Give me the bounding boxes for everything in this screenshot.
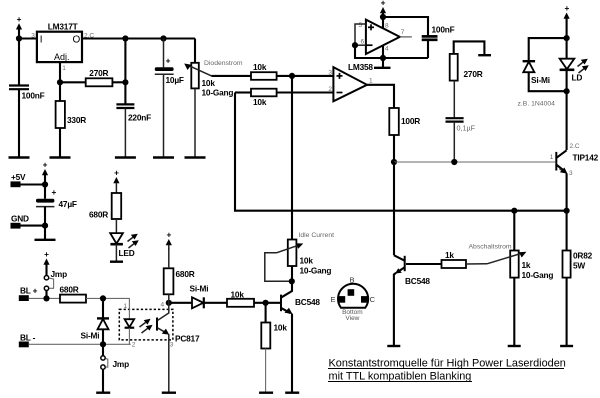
node 1k pot dot xyxy=(511,208,517,214)
power arrow Jmp1 xyxy=(43,249,49,276)
LED opto internal xyxy=(125,319,135,344)
diode Si-Mi to base xyxy=(169,284,227,309)
svg-text:3: 3 xyxy=(170,342,174,349)
svg-text:Si-Mi: Si-Mi xyxy=(81,331,100,341)
svg-text:+5V: +5V xyxy=(11,172,26,182)
resistor 10k base horizontal xyxy=(227,290,280,307)
ground 220nF xyxy=(115,156,136,158)
node BL+ jumper dot xyxy=(43,295,49,301)
node 0,1uF dot xyxy=(451,159,457,165)
ground 270R right xyxy=(478,54,491,56)
node BL- dot xyxy=(100,341,106,347)
terminal BL- xyxy=(19,333,36,348)
svg-text:10k: 10k xyxy=(202,78,216,88)
svg-text:Idle Current: Idle Current xyxy=(299,232,335,239)
laser diode LD xyxy=(560,38,583,91)
wire Adj pin xyxy=(59,62,61,82)
svg-text:+: + xyxy=(166,230,171,240)
power arrow laser supply xyxy=(564,3,570,38)
transistor Q1 BC548 xyxy=(281,281,320,392)
svg-text:10-Gang: 10-Gang xyxy=(202,88,234,98)
resistor 680R BL xyxy=(60,285,104,303)
resistor 10k base pulldown xyxy=(261,303,287,393)
resistor 270R horizontal xyxy=(60,68,125,86)
ground Q1 emitter xyxy=(285,392,299,394)
svg-text:2: 2 xyxy=(132,342,136,349)
node BL+ 680R dot xyxy=(100,295,106,301)
node input dot xyxy=(16,35,22,41)
svg-text:0,1µF: 0,1µF xyxy=(457,124,476,133)
svg-text:+: + xyxy=(381,0,386,8)
svg-text:1: 1 xyxy=(550,154,554,161)
ground 10uF xyxy=(153,156,174,158)
svg-text:GND: GND xyxy=(11,214,29,224)
optocoupler U3 PC817 xyxy=(119,302,200,349)
svg-text:+: + xyxy=(52,187,57,197)
potentiometer 10k 10-Gang Idle Current xyxy=(265,76,334,281)
svg-text:3: 3 xyxy=(31,32,35,39)
resistor 680R LED xyxy=(89,193,121,233)
wire feedback vertical xyxy=(235,93,567,211)
svg-text:8: 8 xyxy=(385,23,389,30)
diode Si-Mi BL clamp xyxy=(81,298,110,344)
wire opto pin1 xyxy=(103,298,129,319)
svg-text:Adj.: Adj. xyxy=(54,52,70,62)
svg-text:O: O xyxy=(73,35,81,46)
node noninv dot xyxy=(289,73,295,79)
resistor 100R xyxy=(389,108,420,162)
svg-text:Diodenstrom: Diodenstrom xyxy=(204,60,243,67)
light arrows LD xyxy=(578,59,589,73)
svg-text:0R82: 0R82 xyxy=(573,251,593,261)
node base dot xyxy=(263,300,269,306)
svg-text:680R: 680R xyxy=(89,210,108,220)
terminal +5V xyxy=(11,172,46,187)
power arrow 680R opto xyxy=(166,230,172,251)
svg-text:100nF: 100nF xyxy=(22,91,45,101)
ground opto pin3 xyxy=(162,392,176,394)
terminal BL+ xyxy=(19,286,38,302)
resistor 270R right xyxy=(450,41,485,80)
ground Diodenstrom pot xyxy=(185,156,206,158)
capacitor 100nF input xyxy=(9,39,45,158)
svg-text:PC817: PC817 xyxy=(175,334,200,344)
svg-text:Jmp: Jmp xyxy=(51,269,68,279)
svg-text:BL +: BL + xyxy=(20,286,38,296)
svg-text:10k: 10k xyxy=(300,256,314,266)
jumper Jmp2 xyxy=(101,344,129,392)
capacitor 220nF xyxy=(116,39,151,158)
node idle pot dot xyxy=(289,278,295,284)
transistor Q3 TIP142 xyxy=(550,143,599,211)
op-amp U2B LM358 buffer xyxy=(348,20,405,72)
wire regulator output top rail xyxy=(82,37,195,39)
svg-text:1k: 1k xyxy=(445,250,454,260)
svg-text:+: + xyxy=(114,168,119,178)
node GND dot xyxy=(42,223,48,229)
power arrow LED branch xyxy=(113,168,119,194)
svg-text:+: + xyxy=(166,56,171,66)
node 5V dot xyxy=(42,181,48,187)
ground 100nF xyxy=(9,156,30,158)
node 270R-220nF dot xyxy=(122,79,128,85)
svg-text:330R: 330R xyxy=(67,115,86,125)
wire pin4 xyxy=(382,45,384,67)
svg-text:Abschaltstrom: Abschaltstrom xyxy=(469,244,512,251)
svg-text:Konstantstromquelle für High P: Konstantstromquelle für High Power Laser… xyxy=(329,357,566,369)
svg-text:1: 1 xyxy=(62,65,66,72)
node laser top dot xyxy=(564,35,570,41)
power arrow +V input left xyxy=(16,14,22,39)
regulator U1 LM317T xyxy=(31,22,94,73)
svg-text:View: View xyxy=(345,315,359,322)
svg-text:LED: LED xyxy=(119,248,135,258)
ground 1k pot xyxy=(508,345,521,347)
svg-text:E: E xyxy=(330,295,335,304)
potentiometer 1k 10-Gang Abschaltstrom xyxy=(469,211,554,346)
power arrow pin8 xyxy=(380,0,386,28)
svg-text:270R: 270R xyxy=(89,68,108,78)
svg-text:100R: 100R xyxy=(401,116,420,126)
svg-text:10-Gang: 10-Gang xyxy=(522,270,554,280)
node pin4 opto dot xyxy=(166,300,172,306)
ground 330R xyxy=(50,156,71,158)
svg-text:7: 7 xyxy=(401,29,405,36)
ground Q2 emitter xyxy=(387,345,400,347)
svg-text:4: 4 xyxy=(385,46,389,53)
wire pin5 bracket xyxy=(355,24,366,45)
svg-text:4: 4 xyxy=(161,302,165,309)
svg-text:z.B. 1N4004: z.B. 1N4004 xyxy=(518,101,556,108)
svg-text:2: 2 xyxy=(328,86,332,93)
svg-text:+: + xyxy=(43,160,48,170)
resistor 10k upper input xyxy=(251,62,333,80)
svg-text:47µF: 47µF xyxy=(59,199,77,209)
wire base line to TIP142 xyxy=(394,161,555,163)
wire laser to TIP142 xyxy=(566,91,568,150)
terminal GND xyxy=(11,214,46,229)
capacitor 0,1uF xyxy=(446,81,476,162)
svg-text:270R: 270R xyxy=(464,69,483,79)
capacitor 10uF electrolytic xyxy=(155,39,184,158)
wire pin6 xyxy=(355,44,366,46)
transistor Q2 BC548 blanking xyxy=(394,255,431,345)
node laser bottom dot xyxy=(564,88,570,94)
svg-text:10k: 10k xyxy=(274,323,288,333)
svg-text:Si-Mi: Si-Mi xyxy=(531,75,550,85)
node 100R base line dot xyxy=(391,159,397,165)
svg-text:LD: LD xyxy=(572,73,583,83)
light arrows opto xyxy=(140,319,153,333)
svg-text:680R: 680R xyxy=(176,269,195,279)
capacitor 47uF electrolytic xyxy=(36,185,77,226)
svg-text:220nF: 220nF xyxy=(128,113,151,123)
light arrows LED xyxy=(128,234,139,248)
node rail-10uF dot xyxy=(160,35,166,41)
ground Jmp2 xyxy=(96,392,110,394)
svg-text:I: I xyxy=(40,35,43,46)
node pin8 dot xyxy=(380,14,386,20)
svg-text:C: C xyxy=(370,295,376,304)
wire op1 output to 100R xyxy=(367,85,394,108)
svg-text:2.C: 2.C xyxy=(570,143,580,150)
svg-text:3: 3 xyxy=(569,170,573,177)
svg-text:100nF: 100nF xyxy=(432,25,455,35)
node rail-220nF dot xyxy=(122,35,128,41)
node pin6 dot xyxy=(352,42,358,48)
svg-text:LM358: LM358 xyxy=(348,62,373,72)
capacitor 100nF bypass xyxy=(383,17,455,58)
ground op-amp pin4 xyxy=(374,67,391,69)
node emitter dot xyxy=(564,208,570,214)
svg-text:10k: 10k xyxy=(231,290,245,300)
svg-text:1: 1 xyxy=(124,303,128,310)
svg-text:BC548: BC548 xyxy=(295,297,320,307)
svg-text:680R: 680R xyxy=(60,285,79,295)
svg-text:3: 3 xyxy=(328,70,332,77)
wire BL+ rail xyxy=(29,297,60,299)
svg-text:10k: 10k xyxy=(253,62,267,72)
wire collector branch BC548 blanking xyxy=(393,162,395,255)
svg-text:5W: 5W xyxy=(573,261,585,271)
LED indicator xyxy=(110,233,135,261)
ground 10k pulldown xyxy=(259,392,273,394)
svg-text:BL -: BL - xyxy=(20,333,36,343)
svg-text:1: 1 xyxy=(369,78,373,85)
power arrow 5V xyxy=(42,160,48,185)
jumper Jmp1 xyxy=(44,269,67,298)
op-amp U2A LM358 xyxy=(328,67,373,101)
svg-text:LM317T: LM317T xyxy=(48,22,78,32)
ground 5V block xyxy=(35,226,56,240)
svg-text:5: 5 xyxy=(359,22,363,29)
svg-text:+: + xyxy=(17,14,22,24)
resistor 1k xyxy=(406,250,487,268)
ground 0R82 xyxy=(560,345,573,347)
svg-text:BC548: BC548 xyxy=(405,276,430,286)
wire wiper to 10k xyxy=(212,75,252,77)
svg-text:10k: 10k xyxy=(253,97,267,107)
svg-text:10µF: 10µF xyxy=(166,75,184,85)
svg-text:+: + xyxy=(44,249,49,259)
wire BL- rail xyxy=(29,343,131,345)
node pin4 dot xyxy=(380,55,386,61)
svg-text:Jmp: Jmp xyxy=(113,359,130,369)
resistor 10k lower feedback xyxy=(235,89,333,107)
title text xyxy=(328,357,566,382)
diode Si-Mi 1N4004 xyxy=(518,38,567,107)
potentiometer 10k 10-Gang Diodenstrom xyxy=(184,39,243,158)
svg-text:10-Gang: 10-Gang xyxy=(300,266,332,276)
wire pin6 to gnd line xyxy=(355,45,428,58)
svg-text:mit TTL kompatiblen Blanking: mit TTL kompatiblen Blanking xyxy=(329,370,472,382)
ground LED xyxy=(110,261,123,263)
resistor 330R xyxy=(56,82,87,157)
wire input to regulator xyxy=(19,37,37,39)
svg-text:+: + xyxy=(564,3,569,13)
package TO-92 bottom view xyxy=(330,276,375,323)
wire output stub pin7 xyxy=(400,36,412,38)
svg-text:Si-Mi: Si-Mi xyxy=(190,284,209,294)
svg-text:1k: 1k xyxy=(522,260,531,270)
node Adj dot xyxy=(57,79,63,85)
svg-text:B: B xyxy=(349,276,354,285)
resistor 0R82 5W xyxy=(563,211,593,346)
phototransistor opto xyxy=(157,303,169,393)
svg-text:TIP142: TIP142 xyxy=(573,153,599,163)
resistor 680R pullup opto xyxy=(164,248,195,303)
